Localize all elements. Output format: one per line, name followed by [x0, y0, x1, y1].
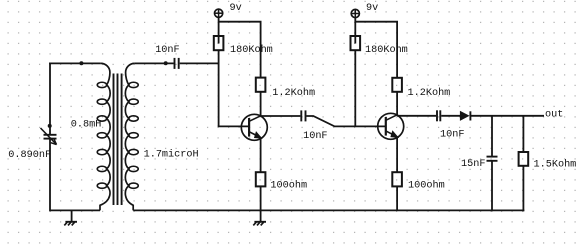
wire: [522, 166, 524, 212]
svg-text:9v: 9v: [230, 3, 242, 14]
wire: [260, 186, 262, 211]
resistor R6 100ohm: [392, 172, 402, 186]
wire: [218, 50, 220, 126]
ground (under Q1): [260, 210, 262, 221]
transformer T1 core: [113, 74, 115, 206]
svg-text:10nF: 10nF: [440, 129, 464, 140]
wire (collector of Q2 to C4): [397, 115, 436, 117]
svg-text:out: out: [545, 109, 563, 120]
node (junction dot): [48, 124, 52, 128]
wire (emitter): [396, 137, 398, 172]
transformer T1 primary winding 0.8mH: [100, 63, 110, 210]
wire (ground bus): [50, 209, 100, 211]
capacitor C5 15nF: [487, 156, 498, 158]
power 9v supply (stage 1): [215, 9, 223, 17]
diode D1: [460, 111, 470, 121]
svg-text:9v: 9v: [366, 3, 378, 14]
ground (left): [71, 210, 73, 221]
wire: [49, 139, 51, 211]
wire: [354, 18, 356, 44]
svg-text:1.5Kohm: 1.5Kohm: [534, 158, 577, 170]
wire: [49, 62, 101, 64]
power 9v supply (stage 2): [351, 9, 359, 17]
resistor R3 100ohm: [256, 172, 266, 186]
wire (diode to out): [470, 115, 544, 117]
transistor Q1: [241, 114, 267, 140]
node B (junction dot): [164, 61, 168, 65]
svg-text:10nF: 10nF: [155, 45, 179, 56]
capacitor C2 10nF (input coupling): [174, 58, 176, 69]
svg-text:100ohm: 100ohm: [270, 179, 307, 191]
transistor Q2: [378, 113, 404, 139]
wire: [180, 62, 220, 64]
wire: [354, 50, 356, 126]
wire (emitter): [260, 138, 262, 173]
svg-text:100ohm: 100ohm: [408, 179, 445, 191]
variable capacitor C1 0.890nF: [44, 134, 57, 136]
wire (to R7): [522, 116, 524, 152]
svg-text:180Kohm: 180Kohm: [365, 44, 408, 56]
svg-text:15nF: 15nF: [461, 159, 485, 170]
svg-text:10nF: 10nF: [303, 131, 327, 142]
wire: [396, 92, 398, 116]
wire: [260, 92, 262, 116]
wire: [441, 115, 460, 117]
wire: [49, 63, 51, 135]
wire: [396, 186, 398, 211]
resistor R5 1.2Kohm: [392, 78, 402, 92]
node A (junction dot): [79, 61, 83, 65]
resistor R4 180Kohm: [351, 36, 361, 50]
svg-text:180Kohm: 180Kohm: [230, 44, 273, 56]
wire (ground bus): [133, 209, 524, 211]
wire (base of Q1): [218, 125, 249, 127]
svg-text:0.8mH: 0.8mH: [71, 119, 102, 130]
capacitor C3 10nF (interstage coupling): [300, 110, 302, 121]
wire: [135, 62, 174, 64]
svg-text:1.2Kohm: 1.2Kohm: [272, 87, 315, 99]
wire (9v to collector branch): [219, 22, 261, 78]
resistor R7 1.5Kohm: [519, 152, 529, 166]
wire: [218, 17, 220, 43]
transformer T1 secondary winding 1.7microH: [125, 63, 134, 210]
wire (C3 to base of Q2): [306, 116, 385, 126]
wire (9v to collector branch): [355, 22, 397, 78]
svg-text:1.7microH: 1.7microH: [144, 148, 199, 160]
wire (to C5): [491, 116, 493, 157]
svg-text:0.890nF: 0.890nF: [8, 150, 51, 161]
resistor R1 180Kohm: [214, 36, 224, 50]
svg-text:1.2Kohm: 1.2Kohm: [408, 87, 451, 99]
wire: [491, 161, 493, 211]
resistor R2 1.2Kohm: [256, 78, 266, 92]
capacitor C4 10nF (output coupling): [436, 110, 438, 121]
wire (collector of Q1 to C3): [261, 115, 301, 117]
